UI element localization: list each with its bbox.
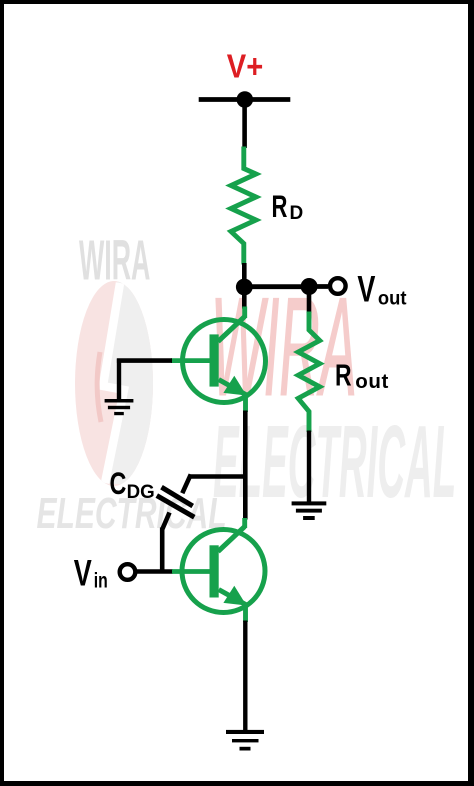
watermark logo oval — [75, 279, 153, 487]
wire capacitor bottom lead vertical — [160, 528, 165, 574]
RD value label — [272, 188, 288, 224]
transistor Q1 (upper, green) — [171, 307, 266, 413]
junction dot at V+ rail — [237, 91, 254, 108]
transistor Q2 emitter lead — [219, 590, 247, 606]
junction node 2 (output node) — [301, 278, 318, 295]
CDG value label — [110, 466, 127, 501]
svg-text:R: R — [335, 357, 352, 392]
capacitor CDG plate 2 — [157, 496, 195, 518]
svg-text:R: R — [272, 188, 288, 224]
watermark big gray ELECTRICAL text — [213, 406, 456, 520]
wire RD to node 1 — [242, 263, 247, 287]
ground symbol under Rout — [292, 501, 327, 520]
wire node 1 to node 2 — [244, 284, 309, 289]
transistor Q2 (lower, green) — [172, 518, 265, 622]
svg-text:DG: DG — [127, 482, 155, 503]
watermark red WIRA text — [211, 270, 357, 425]
wire capacitor branch horizontal — [189, 474, 246, 479]
wire Q1 base lead (green) — [171, 358, 210, 363]
wire Q2 collector stub (green) — [242, 518, 247, 528]
wire Q2 emitter stub (green) — [243, 604, 248, 622]
wire Q1 base to ground (vertical drop) — [117, 359, 121, 401]
transistor Q2 base bar — [210, 545, 219, 597]
wire Q1 collector stub (green) — [242, 307, 247, 319]
wire node 2 to resistor Rout — [307, 287, 312, 314]
transistor Q1 base bar — [210, 334, 219, 386]
svg-text:D: D — [290, 203, 304, 224]
ground symbol at Q2 emitter — [226, 730, 264, 751]
svg-text:V+: V+ — [227, 48, 263, 85]
svg-text:out: out — [355, 370, 389, 393]
node Vout label — [357, 268, 375, 309]
node Vin label — [74, 552, 92, 593]
junction node 1 (drain node) — [236, 279, 253, 296]
transistor Q2 emitter arrow — [223, 586, 246, 606]
transistor Q1 body circle — [183, 320, 266, 403]
ground symbol at Q1 gate — [105, 399, 134, 415]
Vin open terminal — [120, 564, 136, 580]
transistor Q2 body circle — [182, 530, 265, 613]
wire Q2 base lead (green) — [172, 569, 210, 574]
wire Q1 emitter stub (green) — [243, 394, 248, 412]
wire capacitor bottom lead diagonal — [162, 513, 169, 530]
Vout open terminal — [330, 278, 346, 294]
capacitor CDG plate 1 — [162, 487, 193, 506]
watermark small gray ELECTRICAL text — [37, 488, 227, 537]
wire V+ supply rail — [199, 97, 291, 102]
wire Q2 emitter to ground — [243, 621, 247, 732]
wire Vin to Q2 gate — [136, 569, 173, 574]
wire node 1 down to Q1 collector — [242, 294, 247, 309]
resistor Rout (green zigzag) — [298, 312, 320, 433]
svg-text:C: C — [110, 466, 127, 501]
wire Rout to ground — [307, 431, 311, 504]
svg-text:V: V — [74, 552, 92, 593]
node V+ label — [227, 48, 263, 85]
transistor Q1 collector lead — [218, 317, 245, 342]
watermark gray WIRA text — [79, 229, 150, 292]
wire capacitor top lead — [182, 474, 191, 493]
resistor RD (green zigzag) — [231, 147, 256, 265]
transistor Q1 emitter lead — [219, 380, 247, 396]
transistor Q2 collector lead — [218, 527, 245, 552]
svg-text:V: V — [357, 268, 375, 309]
wire V+ to resistor RD — [242, 100, 247, 149]
svg-text:in: in — [94, 568, 108, 592]
wire Q1 base to ground (horizontal) — [117, 359, 172, 401]
Rout value label — [335, 357, 352, 392]
wire node 2 to Vout terminal — [309, 284, 328, 289]
wire Q1 emitter down to Q2 collector — [243, 411, 248, 520]
transistor Q1 emitter arrow — [223, 376, 246, 396]
svg-text:out: out — [378, 288, 407, 310]
